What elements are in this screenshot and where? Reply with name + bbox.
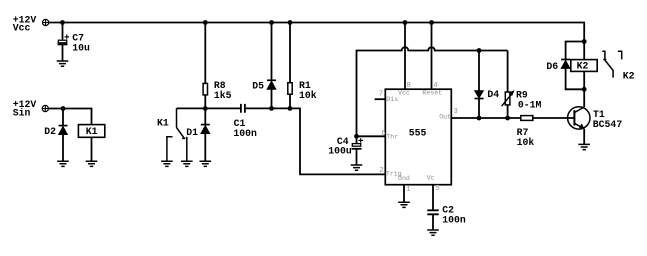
- wire threshold top (y=50) with hops: [357, 47, 508, 50]
- ground (pin 1): [398, 202, 410, 207]
- svg-text:0-1M: 0-1M: [518, 99, 542, 110]
- ground (C7): [57, 61, 69, 66]
- svg-text:3: 3: [453, 108, 457, 116]
- ground (D2): [57, 161, 69, 166]
- diode D4: [475, 51, 500, 119]
- node rail junction dots: [60, 20, 434, 25]
- svg-text:K2: K2: [577, 61, 589, 72]
- svg-text:Out: Out: [439, 114, 451, 121]
- diode D5: [252, 23, 276, 109]
- node K2 junction dots: [582, 39, 587, 92]
- node Sin junction dot: [61, 106, 66, 111]
- svg-text:D5: D5: [252, 80, 264, 91]
- svg-text:Vcc: Vcc: [398, 90, 410, 97]
- pin 4 wire: [431, 23, 433, 90]
- svg-text:K2: K2: [623, 70, 635, 81]
- svg-text:100n: 100n: [442, 214, 466, 225]
- svg-text:2: 2: [379, 167, 383, 175]
- resistor R1: [288, 23, 317, 109]
- pin numbers gray: [379, 82, 458, 194]
- capacitor C4: [328, 136, 363, 165]
- diode D2: [44, 109, 67, 162]
- resistor R7: [517, 116, 575, 149]
- wire D6/K2 branch top: [566, 42, 585, 60]
- node Thr junction dot: [354, 134, 359, 139]
- node junction dots on trigger wire: [203, 106, 292, 111]
- wire Vcc rail: [49, 22, 585, 24]
- svg-text:7: 7: [379, 90, 383, 98]
- svg-text:Thr: Thr: [386, 134, 398, 141]
- diode D1: [186, 108, 210, 161]
- capacitor C2: [427, 205, 466, 231]
- svg-text:100n: 100n: [233, 128, 257, 139]
- wire threshold vertical to pin 6: [357, 50, 386, 137]
- svg-text:Vc: Vc: [427, 175, 435, 182]
- svg-text:D4: D4: [487, 89, 499, 100]
- supply terminal +12V Sin: [13, 99, 49, 118]
- wire trigger node to pin 2: [300, 108, 385, 175]
- supply terminal +12V Vcc: [13, 14, 49, 33]
- svg-text:10k: 10k: [517, 137, 535, 148]
- relay coil K1: [78, 125, 104, 162]
- ground (K1 switch contact A): [161, 161, 173, 166]
- pin 8 wire: [404, 23, 406, 90]
- svg-text:D6: D6: [546, 61, 558, 72]
- wire D6/K2 branch bottom: [566, 69, 585, 90]
- svg-text:Sin: Sin: [13, 107, 31, 118]
- node out junction dots: [477, 48, 510, 120]
- switch K1: [157, 108, 187, 161]
- svg-text:8: 8: [406, 82, 410, 90]
- svg-text:1k5: 1k5: [214, 90, 232, 101]
- svg-text:D2: D2: [44, 126, 56, 137]
- svg-text:Reset: Reset: [422, 90, 442, 97]
- svg-text:100u: 100u: [328, 146, 352, 157]
- wire Sin rail: [48, 109, 91, 125]
- svg-text:6: 6: [381, 130, 385, 138]
- ground (D1): [200, 161, 212, 166]
- svg-text:1: 1: [406, 186, 411, 194]
- wire rail drop right: [583, 22, 585, 42]
- potentiometer R9: [502, 51, 542, 119]
- svg-text:10k: 10k: [299, 90, 317, 101]
- diode D6: [546, 60, 570, 73]
- ground (K1 switch contact B): [181, 161, 193, 166]
- svg-text:Vcc: Vcc: [13, 23, 31, 34]
- resistor R8: [203, 23, 232, 109]
- wire K1 node to C1: [177, 107, 241, 109]
- capacitor C7: [58, 23, 90, 62]
- svg-text:D1: D1: [186, 127, 198, 138]
- ground (C2): [427, 230, 439, 235]
- svg-text:555: 555: [409, 128, 427, 139]
- pin labels gray: [386, 90, 451, 182]
- svg-text:10u: 10u: [72, 42, 90, 53]
- svg-text:K1: K1: [157, 118, 169, 129]
- ground (K1 coil): [86, 161, 98, 166]
- relay coil K2: [571, 42, 597, 90]
- pin 5 wire: [432, 185, 434, 211]
- switch K2: [602, 51, 634, 81]
- svg-text:Dis: Dis: [386, 96, 398, 103]
- capacitor C1: [233, 104, 300, 139]
- transistor T1: [568, 89, 623, 144]
- wire pin 3 out: [451, 117, 521, 119]
- svg-text:BC547: BC547: [593, 119, 623, 130]
- svg-text:Gnd: Gnd: [398, 175, 410, 182]
- svg-text:K1: K1: [86, 126, 98, 137]
- op-amp/timer IC 555 box: [385, 89, 451, 185]
- pin 7 stub: [375, 98, 386, 100]
- ground (C4): [351, 165, 363, 170]
- pin 1 wire: [403, 185, 405, 203]
- svg-text:4: 4: [433, 82, 438, 90]
- ground (T1 emitter): [578, 144, 590, 149]
- svg-text:5: 5: [435, 185, 439, 193]
